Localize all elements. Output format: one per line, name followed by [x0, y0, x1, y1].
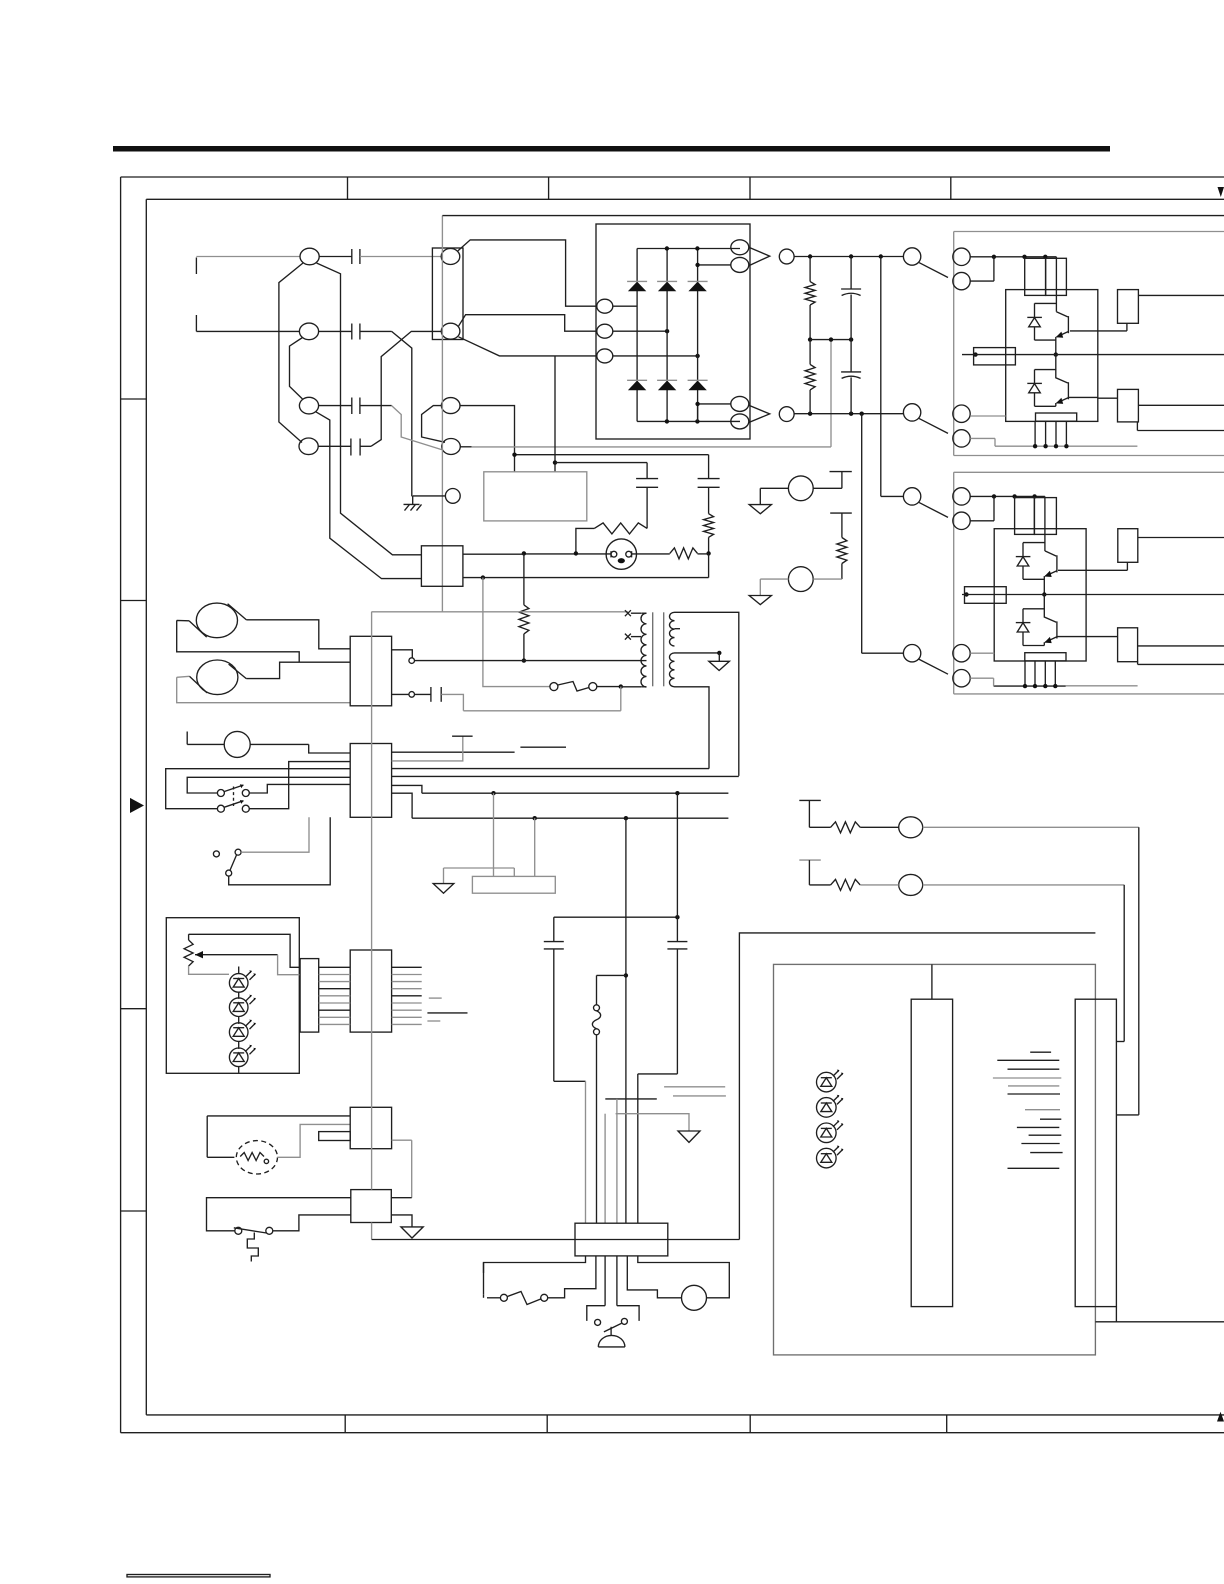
wire tap bus [371, 611, 628, 613]
LED D8 [229, 1020, 255, 1042]
wire breaker right [548, 1256, 596, 1298]
LED D9 [229, 1045, 255, 1067]
wire CN7-CN8 pin6 [319, 1002, 351, 1004]
wire bundle slant C1 left [279, 263, 303, 443]
resistor R2 [704, 514, 714, 538]
gate driver block G3 [1118, 529, 1138, 563]
wire S2 p1 left [187, 777, 350, 793]
diode D4 [1017, 557, 1029, 566]
ground G7 [401, 1227, 423, 1238]
wire aux gnd [616, 1114, 689, 1131]
wire J2 bottom out [1095, 1307, 1224, 1322]
node dot top bus b [695, 246, 699, 250]
wire VR1 top [189, 934, 301, 967]
connector block CN9 [350, 1107, 391, 1148]
node dot x555 [553, 460, 557, 464]
wire gray mid sense vertical [830, 340, 832, 447]
wire G3 return [1126, 562, 1128, 570]
diode D1-6 bottom [688, 380, 708, 390]
wire CN5 out1 [392, 650, 413, 658]
node dot dc+ a [808, 254, 812, 258]
wire secondary top [675, 612, 739, 776]
LED D13 [817, 1146, 844, 1168]
zone tick left 4 [121, 1210, 147, 1212]
wire secondary bottom [675, 687, 710, 769]
gray vertical harness [371, 612, 373, 1190]
wire R6 to P2 [841, 564, 843, 580]
connector block CN5 [350, 636, 391, 706]
wire D5 loop [1023, 609, 1045, 646]
feedback pin P3 [899, 817, 923, 838]
wire D2 loop [1035, 303, 1057, 340]
wire Q2a emitter to mid [1043, 576, 1045, 594]
node dot le1 [1023, 684, 1027, 688]
diode D3 bar [1027, 382, 1042, 384]
wire G2 step out [1137, 422, 1224, 431]
wire CN7-CN8 pin8 [319, 1016, 351, 1018]
node dot l2 [1012, 494, 1016, 498]
node dot torch right [706, 551, 710, 555]
capacitor C5 [636, 479, 658, 488]
pressure switch PS1 [234, 1227, 273, 1261]
wire C5 bottom [646, 487, 648, 528]
wire CN7-CN8 pin1 [319, 966, 351, 968]
bracket bell [587, 1306, 639, 1321]
connector block CN6 [350, 744, 391, 818]
wire pin CN2-2 upper route [459, 315, 597, 332]
node dot dc+ b [849, 254, 853, 258]
LED D10 [817, 1070, 844, 1092]
wire row1 to cap [319, 256, 352, 258]
bleeder resistor R1 upper [805, 257, 815, 340]
emitter header upper [1036, 413, 1077, 421]
wire C6 bottom [708, 487, 710, 513]
dc bus pin - [779, 407, 794, 422]
node dot sensor 2 [964, 592, 968, 596]
resistor R3 [594, 523, 647, 534]
node dot mid gray [829, 337, 833, 341]
ground secondary ct [709, 653, 730, 671]
wire Q1a emitter to mid [1055, 337, 1057, 355]
node dot eb2 [1043, 444, 1047, 448]
transistor Q2a leads [1044, 551, 1057, 577]
wire long gray vertical x442 [441, 216, 443, 612]
thermostat S1 left wire [483, 578, 550, 687]
contactor K3 pivot [903, 488, 920, 505]
wire CN6 out5b [392, 785, 422, 793]
resistor R8 [809, 879, 860, 890]
wire bundle slant C1 right [317, 263, 422, 555]
wire mid output 2 [962, 594, 1224, 596]
node dot le4 [1053, 684, 1057, 688]
switch S5 [595, 1318, 628, 1332]
wire primary bus [415, 660, 642, 662]
current sensor CT3 [974, 348, 1016, 365]
node dot bridge +b [695, 263, 699, 267]
bridge top bus [637, 248, 740, 250]
node dot primary bottom [619, 684, 623, 688]
bell B1 [598, 1327, 625, 1347]
wire fan loop [207, 1116, 350, 1157]
note line 7 [1025, 1109, 1060, 1111]
wire G4 lower return [1066, 685, 1138, 687]
module Q2 bottom pins [1025, 661, 1055, 686]
zone tick bottom 2 [546, 1415, 548, 1433]
bridge pin 3 [597, 349, 613, 363]
wire CT2 out [246, 662, 350, 678]
chassis ground symbol [404, 504, 422, 510]
wire VR1 bottom [189, 966, 229, 974]
bridge column 1 [636, 249, 638, 422]
note line 2 [997, 1059, 1059, 1061]
wire R3 left [576, 528, 594, 553]
wire top bus y215 [442, 215, 1224, 217]
resistor R6 [837, 538, 847, 564]
wire C10 right [441, 694, 463, 710]
wire row4 up slant [371, 331, 441, 446]
node dot u3 [1043, 255, 1047, 259]
wire Q2b gate [1058, 636, 1087, 638]
note line 4 [993, 1077, 1061, 1079]
wire thermostat right [597, 686, 621, 688]
wire K4 in [862, 652, 904, 654]
capacitor C11 [544, 917, 564, 1081]
wire 793 drop [493, 793, 495, 876]
tall connector rect CN2 [432, 248, 463, 340]
bridge column 2 [666, 249, 668, 422]
wire CN8 out pin7 [392, 1009, 422, 1011]
wire CN8 out pin6 [392, 1002, 422, 1004]
wire CN11 mid pins [605, 1256, 617, 1306]
transistor Q1a bar [1067, 316, 1069, 333]
node dot dc+ c [879, 254, 883, 258]
LED D6 [229, 970, 255, 992]
wire bus 818 [412, 817, 728, 819]
capacitor C6 [698, 479, 720, 488]
connector pin CN1-3 [299, 397, 318, 414]
wire S2 p1 right [249, 784, 350, 793]
overline dash 4 [429, 997, 442, 999]
inner border bottom [146, 1414, 1224, 1416]
wire mid output [962, 354, 1224, 356]
gate driver block G4 [1118, 628, 1138, 662]
merge chevron + [749, 247, 770, 265]
node dot sec ct [717, 651, 721, 655]
wire input L1 [196, 256, 300, 258]
contactor K3 pin b [953, 512, 970, 529]
CT2 conductor strokes [189, 664, 246, 693]
wire lamp [187, 732, 350, 754]
switch S2 pole2 [217, 800, 249, 812]
connector pin CN1-4 [299, 438, 318, 455]
connector block CN10 [351, 1190, 392, 1223]
note line 3 [1008, 1068, 1060, 1070]
bridge bottom bus [637, 420, 740, 422]
pulse pin P1 [788, 476, 813, 501]
transistor Q2b leads [1044, 595, 1057, 646]
node dot fuse tap [624, 973, 628, 977]
capacitor C2a [352, 324, 360, 340]
feedback pin P4 [899, 874, 923, 895]
connector block CN4 [421, 546, 463, 587]
electrode symbol E4 [799, 860, 821, 885]
emitter bus upper [995, 445, 1137, 447]
wire bundle slant C2 [290, 338, 303, 400]
bridge output pin -a [731, 396, 749, 411]
node dot mid out 2 [1042, 592, 1046, 596]
upper assembly box bottom [954, 455, 1224, 457]
upper assembly box top [954, 231, 1224, 233]
wire S2 p2 left [166, 769, 351, 809]
node dot dc- c [860, 412, 864, 416]
gate driver block G2 [1118, 389, 1139, 422]
wire bridge pin3 [613, 355, 698, 357]
wire K3 out [970, 495, 1045, 497]
node dot 793a [491, 791, 495, 795]
wire fan out [277, 1124, 350, 1157]
diode D1-5 bottom [657, 380, 677, 390]
transformer tap x2 [625, 634, 641, 640]
zone tick bottom 3 [749, 1415, 751, 1433]
inner border top [146, 198, 1224, 200]
potentiometer VR1 [184, 940, 193, 966]
bleeder resistor R1 lower [805, 340, 815, 414]
connector block CN11 [575, 1223, 668, 1256]
wire PS right [273, 1215, 351, 1231]
ground P2 [749, 579, 771, 605]
wire input L2 [196, 330, 299, 332]
inner border left [145, 199, 147, 1415]
wire bridge pin2 [613, 330, 667, 332]
tall connector J1 [911, 999, 952, 1306]
wire dc- drop to lower module [861, 414, 863, 654]
transformer tap x1 [625, 610, 641, 616]
front panel box [166, 918, 299, 1074]
wire C11 jog [554, 1081, 586, 1223]
wire divider mid [810, 339, 851, 341]
fan motor M1 [236, 1141, 277, 1174]
wire pin CN3-1 to control [460, 406, 515, 472]
emitter bus lower [994, 685, 1066, 687]
wire snubber top [554, 916, 678, 918]
ground P1 [749, 488, 771, 514]
wire row3 to cap [319, 405, 352, 407]
control PCB box [484, 472, 587, 521]
wire lower module feed [1044, 496, 1046, 551]
wire module feed drop [1055, 257, 1057, 312]
wire CN8 out pin5 [392, 995, 422, 997]
wire control pin [413, 495, 446, 497]
transistor Q1b bar [1067, 382, 1069, 399]
node dot l1 [992, 494, 996, 498]
contactor K4 blade [919, 659, 949, 674]
note line 11 [1021, 1143, 1059, 1145]
node dot u1 [992, 255, 996, 259]
zone tick left 1 [121, 398, 147, 400]
current sensor CT4 [965, 587, 1007, 604]
contactor K1 pin a [953, 248, 970, 265]
note line 5 [1008, 1085, 1059, 1087]
node dot bridge2 [665, 329, 669, 333]
input terminal bracket L1 [195, 258, 197, 275]
wire CN6 out6b [392, 793, 413, 818]
electrode symbol E1 [830, 472, 852, 489]
contactor K4 pivot [903, 645, 920, 662]
diode D1-4 bottom [627, 380, 647, 390]
wire bus y462 [555, 462, 647, 464]
LED D11 [817, 1095, 844, 1117]
horn H1 [682, 1285, 707, 1310]
contactor K2 pin a [953, 405, 970, 422]
wire dc bus + [794, 256, 903, 258]
overline dash 2 [605, 1098, 657, 1100]
capacitor C7 lower [841, 340, 861, 414]
upper assembly box left [953, 232, 955, 456]
wire CN9 out [392, 1139, 412, 1141]
diode D4 bar [1016, 556, 1031, 558]
LED D12 [817, 1120, 844, 1142]
transformer T1 primary [641, 613, 647, 687]
wire CN8 out pin3 [392, 981, 422, 983]
ground G6 [678, 1131, 700, 1142]
wire P4 drop [1116, 885, 1124, 1042]
wire block to torch bus [463, 553, 524, 555]
wire G4 out [1138, 645, 1224, 647]
note line 1 [1030, 1051, 1051, 1053]
main PCB box [774, 964, 1096, 1355]
wire torch right [632, 553, 709, 555]
overline dash 6 [427, 1020, 440, 1022]
wire G3 out [1138, 537, 1224, 539]
zone tick left 2 [121, 600, 147, 602]
wire row4 to cap [318, 445, 351, 447]
wire CN7-CN8 pin5 [319, 995, 351, 997]
wire bundle slant C3 [316, 412, 422, 579]
node dot eb3 [1054, 444, 1058, 448]
wire K2 pin b [970, 438, 995, 446]
wire K3 in [881, 495, 904, 497]
wire torch left [524, 553, 611, 555]
contactor K2 pivot [903, 404, 920, 421]
bridge pin 2 [597, 324, 613, 338]
LED D7 [229, 995, 255, 1017]
wire cap row4 right [360, 445, 371, 447]
chassis ground stub [412, 496, 414, 505]
header stub CN9b [319, 1132, 351, 1141]
zone tick left 3 [121, 1008, 147, 1010]
wire CN8 out pin9 [392, 1023, 422, 1025]
wire 793 sense drop [676, 793, 678, 917]
contactor K4 pin b [953, 670, 970, 687]
wire harness drop 616 [616, 1099, 618, 1223]
node dot top bus a [665, 246, 669, 250]
zone tick top 3 [749, 177, 751, 199]
module Q1 bottom pins [1035, 421, 1066, 446]
torch connector plug [606, 539, 636, 569]
node dot torch mid [574, 551, 578, 555]
wire CN7-CN8 pin9 [319, 1023, 351, 1025]
wire S3 b [229, 817, 331, 885]
node dot eb1 [1033, 444, 1037, 448]
note line 6 [1008, 1093, 1061, 1095]
node dot bridge3 [695, 354, 699, 358]
wire row2 to cap [319, 330, 352, 332]
transformer T1 secondary upper [670, 612, 680, 646]
wire CN10 right gnd [391, 1215, 412, 1227]
input terminal bracket L2 [195, 315, 197, 331]
bridge output pin +b [731, 257, 749, 272]
switch S2 linkage [233, 787, 235, 807]
wire S3 a [241, 817, 309, 852]
wire R2 to bus577 [708, 553, 710, 577]
wire dc bus - [794, 413, 903, 415]
node dot l3 [1032, 494, 1036, 498]
merge chevron - [749, 405, 770, 422]
wire P3 [860, 826, 1139, 828]
wire row3 circle feed [422, 406, 445, 443]
revision triangle bottom right [1217, 1412, 1224, 1422]
node dot mid cap [849, 337, 853, 341]
terminal strip TB1 [472, 876, 555, 893]
node dot primary bus [522, 658, 526, 662]
wire primary return [463, 687, 620, 711]
tall connector J2 [1075, 999, 1116, 1306]
wire CN8 out pin4 [392, 988, 422, 990]
wire cap row3 right [360, 405, 392, 407]
node dot sensor [973, 352, 977, 356]
bridge output pin -b [731, 414, 749, 429]
wire cap row2 right [360, 330, 392, 332]
wire P3 drop [1116, 827, 1138, 1115]
wire gray bus 577 [463, 577, 709, 579]
node dot le2 [1033, 684, 1037, 688]
switch S2 pole1 [217, 784, 249, 796]
capacitor C3a [352, 398, 360, 415]
wire CN5 out2 [392, 693, 409, 695]
wire pin CN2-1 to bridge bus [458, 240, 597, 306]
node dot snubber [675, 915, 679, 919]
CT coil 1 [196, 603, 237, 638]
wire gray below CN10 [371, 1223, 373, 1240]
transformer T1 core [653, 612, 664, 686]
revision triangle top right [1218, 187, 1224, 197]
node dot bus577 [481, 575, 485, 579]
wire sec to block a [392, 768, 709, 770]
blue footer link underline [127, 1575, 270, 1577]
note line 13 [1008, 1167, 1060, 1169]
node dot bottom bus b [695, 419, 699, 423]
page top rule [113, 146, 1110, 152]
diode D2 [1029, 318, 1041, 327]
wire CN11 exit a2 [483, 1263, 485, 1273]
wire G2 out [1138, 404, 1224, 406]
contactor K1 pin b [953, 272, 970, 289]
contactor K2 blade [919, 418, 949, 433]
primary bus junction ring [409, 658, 415, 664]
wire PS left [207, 1198, 351, 1231]
diode D1-3 top [688, 281, 708, 291]
contactor K4 pin a [953, 645, 970, 662]
wire bridge +b [698, 264, 731, 266]
electrode symbol E3 [799, 800, 821, 827]
wire P2 [760, 578, 842, 580]
connector pin CN2-2 [441, 323, 460, 339]
capacitor C10 [431, 687, 441, 702]
node dot bridge -a [695, 402, 699, 406]
resistor R7 [809, 822, 860, 833]
revision arrow left border [130, 798, 144, 813]
contactor K3 pin a [953, 488, 970, 505]
